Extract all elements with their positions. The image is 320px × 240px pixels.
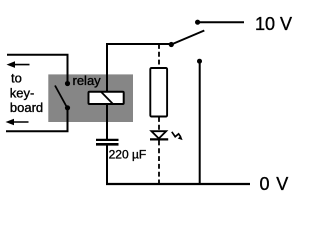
relay contact bottom (node) [65, 105, 70, 110]
svg-text:0V: 0V [260, 174, 289, 194]
arrow to keyboard (bottom) [6, 119, 29, 126]
switch S1 blade [171, 31, 204, 45]
wire to keyboard (top) [7, 55, 68, 81]
arrow to keyboard (top) [7, 61, 30, 68]
switch S1 lower contact node [197, 59, 202, 64]
svg-text:board: board [10, 100, 43, 115]
svg-text:220 µF: 220 µF [109, 148, 147, 162]
wire: coil bottom to capacitor [106, 104, 108, 140]
switch S1 common node [169, 42, 174, 47]
relay contact top (node) [65, 81, 70, 86]
LED light arrow [172, 132, 183, 140]
svg-text:key-: key- [10, 85, 35, 100]
svg-text:10 V: 10 V [255, 14, 292, 34]
wire: capacitor to 0 V rail [106, 144, 108, 185]
0 V rail [106, 183, 250, 185]
relay coil [89, 92, 124, 104]
LED D1 [150, 131, 168, 139]
svg-text:to: to [11, 71, 22, 86]
wire: coil top to supply rail [107, 44, 171, 92]
relay box K1 [48, 74, 133, 122]
capacitor C1 [96, 140, 119, 144]
svg-text:relay: relay [73, 73, 102, 88]
dashed wire: rail to resistor [158, 44, 160, 68]
dashed wire: LED to 0 V rail [158, 141, 160, 185]
relay switch blade [55, 86, 67, 107]
wire to keyboard (bottom) [6, 108, 68, 131]
resistor R1 [150, 68, 167, 117]
wire to 10 V [198, 21, 244, 23]
wire: lower contact to 0 V rail [199, 61, 201, 185]
coil slash [101, 92, 113, 104]
dashed wire: resistor to LED [158, 117, 160, 131]
switch S1 upper contact node [195, 20, 200, 25]
